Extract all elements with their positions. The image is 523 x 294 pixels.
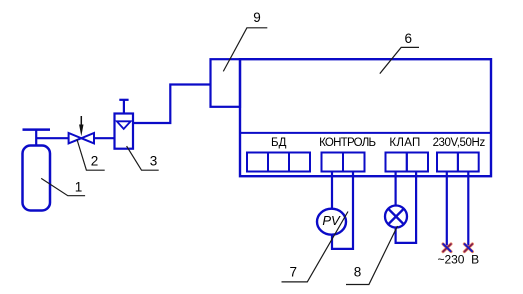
svg-text:8: 8	[354, 265, 362, 280]
svg-text:PV: PV	[322, 213, 341, 228]
svg-text:2: 2	[91, 154, 99, 169]
svg-text:БД: БД	[271, 137, 287, 149]
svg-text:КОНТРОЛЬ: КОНТРОЛЬ	[319, 137, 375, 149]
svg-text:7: 7	[289, 265, 297, 280]
svg-text:1: 1	[75, 180, 83, 195]
svg-text:3: 3	[150, 154, 158, 169]
svg-text:6: 6	[405, 31, 413, 46]
svg-text:9: 9	[253, 10, 261, 25]
svg-text:~230 В: ~230 В	[437, 253, 479, 267]
svg-text:230V,50Hz: 230V,50Hz	[433, 137, 486, 149]
svg-text:КЛАП: КЛАП	[389, 137, 420, 149]
